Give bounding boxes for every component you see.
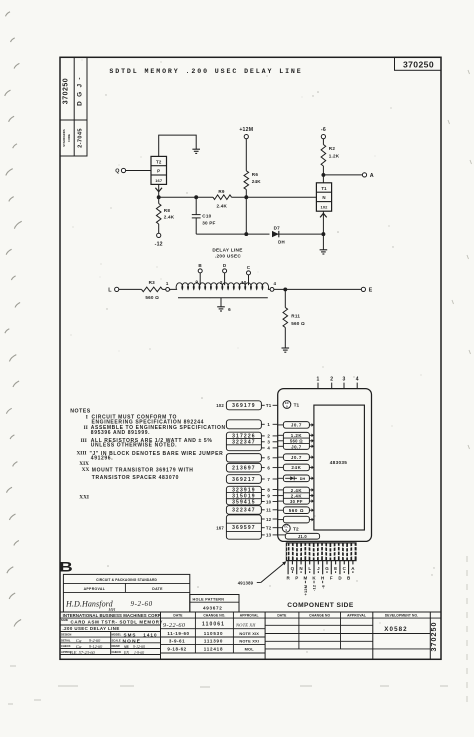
svg-text:XIII: XIII <box>76 451 86 457</box>
svg-text:560 Ω: 560 Ω <box>145 295 159 300</box>
power net -12 at pin K <box>312 581 317 591</box>
svg-text:III: III <box>81 438 87 444</box>
svg-text:2-7045: 2-7045 <box>78 128 84 148</box>
svg-text:9-18-62: 9-18-62 <box>167 647 186 652</box>
jumper box J1.0 (pin 13) <box>278 533 320 539</box>
wire D7 to T1 emitter node <box>276 233 323 235</box>
svg-text:T1: T1 <box>294 403 300 408</box>
svg-text:N: N <box>322 195 325 200</box>
part 369179 (transistor T1) with pin T1 <box>216 401 277 410</box>
svg-text:370250: 370250 <box>429 622 438 652</box>
svg-text:STANDARDS: STANDARDS <box>62 129 66 147</box>
svg-text:Q: Q <box>115 169 119 175</box>
wire R3 to node 1 <box>163 288 166 290</box>
ground (R11) <box>282 348 290 352</box>
note II <box>84 425 226 436</box>
tap C (pin 10) <box>241 265 251 285</box>
svg-text:H.D.Hansford: H.D.Hansford <box>65 600 114 609</box>
svg-text:D7: D7 <box>274 226 281 231</box>
svg-text:1.2K: 1.2K <box>291 433 303 438</box>
node: R6 bottom junction <box>244 195 248 199</box>
svg-text:NOTES: NOTES <box>70 408 90 414</box>
part group 323919 / 315019 / 359415 pins 8-10 <box>226 486 277 505</box>
svg-text:NOTE XXI: NOTE XXI <box>239 638 259 643</box>
resistor R9 2.4K <box>213 189 232 208</box>
svg-text:11: 11 <box>266 508 271 513</box>
empty part box pin 1 <box>226 420 277 429</box>
svg-text:HOLE PATTERN: HOLE PATTERN <box>193 597 225 601</box>
wire lower rail C10 to D7 <box>196 233 269 235</box>
svg-text:B: B <box>59 559 73 575</box>
left info box: STANDARDS CODE / 2-7045 <box>60 120 87 156</box>
node: T1 emitter junction <box>321 232 325 236</box>
power net +12M at pin M <box>303 581 308 596</box>
svg-text:+12M: +12M <box>239 127 253 133</box>
svg-text:R8: R8 <box>164 208 171 213</box>
svg-text:C: C <box>247 265 251 270</box>
ground (T1 emitter) <box>320 234 328 254</box>
svg-text:CARD ASM TSTR- SDTDL MEMORY: CARD ASM TSTR- SDTDL MEMORY <box>71 620 164 625</box>
svg-text:H: H <box>321 576 324 581</box>
svg-text:24K: 24K <box>291 465 301 470</box>
svg-text:F: F <box>330 576 333 581</box>
wire emitter node to R9 <box>159 196 213 198</box>
svg-text:J0.7: J0.7 <box>291 444 302 449</box>
svg-text:XXI: XXI <box>79 495 89 501</box>
svg-text:CHANGE NO.: CHANGE NO. <box>203 613 225 617</box>
node: R2 / output A junction <box>321 173 325 177</box>
svg-text:30 PF: 30 PF <box>290 499 303 504</box>
svg-text:10: 10 <box>266 499 272 504</box>
svg-text:DEVELOPMENT NO.: DEVELOPMENT NO. <box>385 613 418 617</box>
svg-text:322347: 322347 <box>232 440 256 446</box>
transistor T2 circle on card <box>278 524 299 532</box>
svg-text:NAME: NAME <box>61 619 68 622</box>
node: T2 emitter junction <box>157 195 161 199</box>
svg-text:SCALE: SCALE <box>112 638 121 642</box>
delay line shield with ground 6 <box>178 298 268 312</box>
value box 560 ohm (pin 11) <box>278 507 314 514</box>
svg-text:213697: 213697 <box>232 466 256 472</box>
svg-text:CHANGE NO: CHANGE NO <box>309 613 330 617</box>
terminal -6 <box>321 127 326 139</box>
svg-text:11-19-60: 11-19-60 <box>167 631 189 636</box>
svg-text:MOUNT TRANSISTOR 369179 WIT: MOUNT TRANSISTOR 369179 WITH <box>92 467 194 473</box>
input terminal Q <box>115 168 125 174</box>
svg-text:J0.7: J0.7 <box>291 423 302 428</box>
card top pins 1-4 <box>317 376 359 388</box>
node 1 terminal <box>166 281 170 291</box>
svg-text:NOTE XII: NOTE XII <box>235 622 256 627</box>
drawing frame border <box>60 57 441 659</box>
left info box: 370250 / D G J <box>60 57 87 120</box>
part group 317226 / 322347 / blank pins 2-4 <box>226 432 277 451</box>
svg-text:CIRCUIT & PACKAGING STANDARD: CIRCUIT & PACKAGING STANDARD <box>96 578 157 582</box>
part 369217 pin 7 <box>226 475 277 484</box>
module 483035 outline <box>314 405 365 530</box>
svg-text:A: A <box>370 173 374 179</box>
svg-text:L: L <box>108 288 112 294</box>
svg-text:D: D <box>223 263 227 268</box>
svg-text:13: 13 <box>266 533 272 538</box>
wire Q to T2 base <box>126 170 151 172</box>
svg-text:9: 9 <box>195 280 198 285</box>
svg-text:R11: R11 <box>291 314 300 319</box>
value group 1.2K / 560 / J0.7 (pins 2-4) <box>278 432 314 449</box>
card outline (component side) <box>278 389 372 542</box>
svg-text:DELAY LINE: DELAY LINE <box>212 247 242 252</box>
svg-text:P: P <box>295 576 298 581</box>
diode D7 DH <box>272 226 285 245</box>
wire L to R3 <box>119 288 142 290</box>
connector pins A-R <box>286 561 355 581</box>
svg-text:483035: 483035 <box>330 460 348 465</box>
svg-text:APPROVAL: APPROVAL <box>84 587 106 591</box>
resistor R3 560 ohm <box>142 280 163 300</box>
card edge connector (hatched) <box>286 543 358 561</box>
ground (T2 collector) <box>192 149 200 153</box>
svg-text:2.4K: 2.4K <box>164 215 175 220</box>
svg-text:CHECK: CHECK <box>112 650 122 654</box>
svg-text:DETAIL: DETAIL <box>61 638 71 642</box>
svg-text:I: I <box>86 415 88 421</box>
svg-text:167: 167 <box>216 525 224 530</box>
wire T2 collector to ground <box>159 135 197 156</box>
svg-text:2.4K: 2.4K <box>217 203 228 208</box>
svg-text:L: L <box>308 566 311 571</box>
node: C10 junction <box>194 195 198 199</box>
svg-text:N: N <box>299 566 302 571</box>
drawing number box top right <box>395 57 442 70</box>
svg-text:DATE: DATE <box>152 587 163 591</box>
svg-text:1.2K: 1.2K <box>329 153 340 158</box>
IBM title table <box>60 612 441 659</box>
svg-text:560 Ω: 560 Ω <box>289 508 304 513</box>
svg-text:359415: 359415 <box>232 500 256 506</box>
transistor T1 block (T1/N/102) <box>316 183 331 211</box>
svg-text:111390: 111390 <box>204 638 223 643</box>
svg-text:315019: 315019 <box>232 494 256 500</box>
terminal +12M <box>239 127 253 139</box>
svg-text:P: P <box>157 169 160 174</box>
note XIII <box>76 451 223 462</box>
svg-text:X0582: X0582 <box>384 626 407 633</box>
svg-text:493672: 493672 <box>203 605 223 610</box>
svg-text:COMPONENT SIDE: COMPONENT SIDE <box>287 602 354 609</box>
svg-text:.200 USEC DELAY LINE: .200 USEC DELAY LINE <box>63 626 120 631</box>
svg-text:110530: 110530 <box>204 631 224 636</box>
value box diode DH (pin 7) <box>278 475 314 482</box>
note III <box>81 438 213 449</box>
revision entries <box>163 621 408 651</box>
node: R11 junction <box>283 287 287 291</box>
value box J0.7 (pin 5) <box>278 454 314 461</box>
svg-text:3: 3 <box>343 376 346 382</box>
svg-text:T1: T1 <box>321 186 327 191</box>
resistor R8 2.4K <box>156 197 174 233</box>
svg-text:J1.0: J1.0 <box>298 534 308 539</box>
wire R6 node down to lower rail <box>245 197 247 234</box>
svg-text:DATE: DATE <box>277 613 287 617</box>
svg-text:R9: R9 <box>218 189 225 194</box>
power net -6 at pin H <box>320 581 325 589</box>
transistor T2 block (T2/P/167) <box>151 156 167 184</box>
svg-text:369597: 369597 <box>232 525 256 531</box>
svg-text:102: 102 <box>216 403 224 408</box>
svg-text:DRAW: DRAW <box>112 644 121 648</box>
svg-text:Q: Q <box>291 566 295 571</box>
resistor R2 1.2K <box>321 139 340 175</box>
svg-text:M: M <box>304 576 308 581</box>
svg-text:CHECK: CHECK <box>61 644 71 648</box>
svg-text:30 PF: 30 PF <box>202 220 215 225</box>
svg-text:2.4K: 2.4K <box>291 488 303 493</box>
svg-text:+12M: +12M <box>303 585 308 596</box>
svg-text:T2: T2 <box>156 159 162 164</box>
signature H D Hansford and date 9-2-60 <box>65 600 153 613</box>
empty part box pin 5 <box>226 454 277 462</box>
svg-text:Cg: Cg <box>76 638 82 643</box>
svg-text:317226: 317226 <box>232 433 256 439</box>
svg-text:MOL: MOL <box>245 647 255 652</box>
svg-text:E: E <box>369 288 373 294</box>
svg-text:4: 4 <box>273 281 276 286</box>
svg-text:369217: 369217 <box>232 477 256 483</box>
svg-text:102: 102 <box>321 205 329 210</box>
svg-text:-6: -6 <box>321 127 326 133</box>
svg-text:2: 2 <box>220 280 223 285</box>
input terminal L <box>108 287 119 293</box>
value box blank (pin 12) <box>278 516 314 523</box>
svg-text:XIX: XIX <box>79 461 89 467</box>
value box J0.7 (pin 1) <box>278 422 314 429</box>
node 4 terminal <box>270 281 276 292</box>
svg-text:B: B <box>198 263 202 268</box>
svg-text:VE: VE <box>124 645 129 649</box>
output terminal E <box>361 287 372 293</box>
svg-text:R6: R6 <box>252 172 259 177</box>
svg-text:112418: 112418 <box>204 647 224 652</box>
svg-text:.200 USEC: .200 USEC <box>215 254 241 259</box>
svg-text:C10: C10 <box>202 214 211 219</box>
svg-text:UNLESS OTHERWISE NOTED.: UNLESS OTHERWISE NOTED. <box>91 443 177 449</box>
svg-text:R3: R3 <box>149 280 156 285</box>
svg-text:NOTE XIX: NOTE XIX <box>239 631 259 636</box>
wire node 4 to output E <box>274 288 361 290</box>
delay line label <box>212 247 242 258</box>
svg-text:APPROVAL: APPROVAL <box>240 613 259 617</box>
svg-text:370250: 370250 <box>403 59 434 69</box>
wire node to output A <box>323 174 362 176</box>
hole pattern box 493672 <box>190 595 239 613</box>
svg-text:INTERNATIONAL BUSINESS MACHINE: INTERNATIONAL BUSINESS MACHINES CORP. <box>63 613 162 618</box>
svg-text:Cg: Cg <box>76 644 82 649</box>
value group 2.4K / 2.4K / 30 PF (pins 8-10) <box>278 487 314 504</box>
svg-text:EN: EN <box>123 651 129 655</box>
wire T2 emitter with arrow <box>155 184 162 197</box>
svg-text:491389: 491389 <box>238 580 254 585</box>
svg-text:370250: 370250 <box>63 78 70 104</box>
svg-text:XX: XX <box>82 467 90 473</box>
svg-text:J0.7: J0.7 <box>291 455 302 460</box>
wire T1 collector to node <box>322 175 324 183</box>
svg-text:24K: 24K <box>252 179 262 184</box>
svg-text:9-12-60: 9-12-60 <box>89 644 103 649</box>
svg-text:HH: HH <box>108 607 116 612</box>
svg-text:3-9-61: 3-9-61 <box>169 638 185 643</box>
svg-text:167: 167 <box>155 178 163 183</box>
svg-text:895396 AND 891999.: 895396 AND 891999. <box>91 430 150 436</box>
svg-text:APPROVAL: APPROVAL <box>347 613 366 617</box>
svg-text:-6: -6 <box>320 584 325 588</box>
svg-text:-12: -12 <box>312 584 317 591</box>
svg-text:MODEL: MODEL <box>112 633 122 637</box>
connector part number 491389 with leader <box>238 561 287 585</box>
svg-text:T2: T2 <box>266 526 272 531</box>
tap D (pin 2) <box>220 263 227 285</box>
value box 24K (pin 6) <box>278 464 314 471</box>
node: lower rail under R6 <box>244 232 248 236</box>
svg-text:323919: 323919 <box>232 487 256 493</box>
svg-text:DH: DH <box>278 240 285 245</box>
svg-text:1-9-60: 1-9-60 <box>134 651 144 655</box>
part 213697 pin 6 <box>226 463 277 472</box>
svg-text:560 Ω: 560 Ω <box>291 321 305 326</box>
svg-text:12: 12 <box>266 517 272 522</box>
svg-text:322347: 322347 <box>232 508 256 514</box>
svg-text:560 Ω: 560 Ω <box>290 439 303 444</box>
svg-text:NONE: NONE <box>123 639 142 645</box>
svg-text:DESIGN: DESIGN <box>61 633 71 637</box>
note I <box>86 415 204 426</box>
revision table <box>161 612 442 659</box>
svg-text:TRANSISTOR SPACER 483070: TRANSISTOR SPACER 483070 <box>92 475 179 481</box>
svg-text:D G J -: D G J - <box>77 76 84 106</box>
wire T1 emitter with arrow <box>320 211 327 234</box>
svg-text:CODE: CODE <box>67 134 71 142</box>
transistor T1 circle on card <box>283 401 300 409</box>
resistor R6 24K <box>244 139 261 198</box>
svg-text:1: 1 <box>317 376 320 382</box>
svg-text:2.4K: 2.4K <box>291 493 303 498</box>
part group blank / 369597 / blank pins 12,T2,13 <box>216 515 277 539</box>
delay line DL1 coil .200 USEC <box>170 283 271 290</box>
svg-text:G: G <box>325 566 329 571</box>
terminal -12 <box>155 233 163 247</box>
svg-text:4: 4 <box>356 376 359 382</box>
svg-text:9-2-60: 9-2-60 <box>89 638 101 643</box>
svg-text:DH: DH <box>300 477 306 481</box>
resistor R11 560 ohm <box>283 289 305 348</box>
part 322347 pin 11 <box>226 506 277 515</box>
svg-text:9-12-60: 9-12-60 <box>133 645 145 649</box>
circuit & packaging standard box <box>63 574 189 612</box>
svg-text:369179: 369179 <box>232 403 256 409</box>
svg-text:R2: R2 <box>329 146 336 151</box>
svg-text:E: E <box>334 566 337 571</box>
svg-text:T1: T1 <box>266 403 272 408</box>
tap B (pin 9) <box>195 263 202 285</box>
svg-text:110061: 110061 <box>202 621 225 627</box>
svg-text:1: 1 <box>166 281 169 286</box>
svg-text:T2: T2 <box>293 526 299 531</box>
svg-text:B.E. 57-23-60: B.E. 57-23-60 <box>70 650 96 655</box>
wire R9 to T1 base <box>232 196 317 198</box>
svg-text:SDTDL MEMORY .200 USEC DELAY L: SDTDL MEMORY .200 USEC DELAY LINE <box>109 68 302 75</box>
capacitor C10 30 PF <box>192 197 216 234</box>
note XX <box>82 467 194 481</box>
svg-text:-12: -12 <box>155 241 163 247</box>
svg-text:9-22-60: 9-22-60 <box>163 622 186 629</box>
svg-text:2: 2 <box>330 376 333 382</box>
svg-text:9-2-60: 9-2-60 <box>131 600 153 608</box>
svg-text:6: 6 <box>228 307 231 312</box>
svg-text:491296.: 491296. <box>91 456 113 462</box>
svg-text:10: 10 <box>241 280 247 285</box>
svg-text:II: II <box>84 425 88 431</box>
output terminal A <box>362 173 373 179</box>
svg-text:DATE: DATE <box>173 613 183 617</box>
